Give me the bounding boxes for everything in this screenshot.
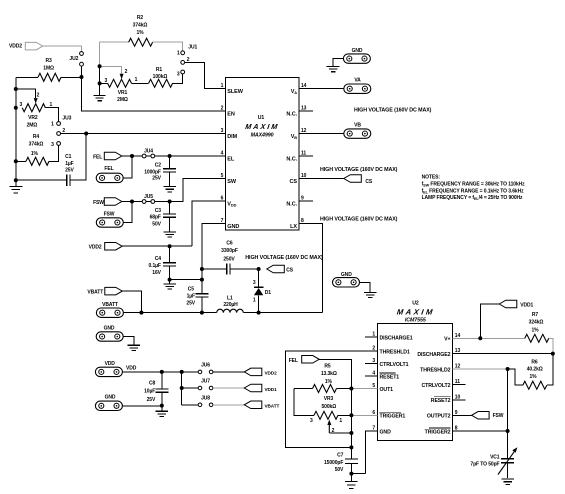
net tag VDD2 (right): [244, 368, 261, 376]
node C8 bottom junction: [160, 404, 164, 408]
wire EL row: [122, 155, 226, 157]
node C4 junction: [168, 244, 172, 248]
svg-text:VDD: VDD: [227, 202, 236, 208]
svg-text:10µF: 10µF: [144, 389, 155, 395]
U2 pin 11 stub: [453, 383, 466, 385]
svg-text:25V: 25V: [186, 300, 195, 306]
jumper JU7: [198, 386, 202, 390]
U2 pin 4 stub: [365, 375, 377, 377]
svg-text:OUT1: OUT1: [380, 387, 394, 393]
wire VDD row: [122, 371, 198, 373]
svg-text:CS: CS: [365, 179, 373, 185]
wire CS pin to tag: [299, 178, 344, 180]
U1 pin 11 N.C. stub: [299, 155, 313, 157]
svg-text:HIGH VOLTAGE (160V DC MAX): HIGH VOLTAGE (160V DC MAX): [354, 107, 432, 113]
ground (mid left): [128, 345, 141, 350]
svg-text:3: 3: [19, 102, 22, 108]
wire battery rail (bottom): [123, 312, 323, 314]
svg-text:TRIGGER2: TRIGGER2: [425, 429, 451, 435]
U2 pin 10 stub: [453, 399, 466, 401]
svg-text:R4: R4: [33, 134, 40, 140]
ground (VC1): [501, 479, 514, 485]
svg-text:3: 3: [253, 280, 256, 286]
svg-text:1%: 1%: [529, 374, 537, 380]
svg-text:VDD2: VDD2: [265, 371, 278, 376]
svg-text:1: 1: [339, 418, 342, 424]
svg-text:JU6: JU6: [201, 363, 210, 369]
ground (C7): [350, 474, 352, 481]
svg-text:R6: R6: [531, 359, 538, 365]
ground (C3): [163, 232, 176, 237]
net tag CS (U1 pin 10): [344, 175, 362, 183]
wire VA to connector: [299, 88, 344, 90]
svg-text:0.1µF: 0.1µF: [149, 263, 161, 269]
svg-text:13.3kΩ: 13.3kΩ: [321, 371, 337, 377]
svg-text:MAXIM: MAXIM: [245, 122, 280, 131]
svg-text:VC1: VC1: [490, 454, 500, 460]
svg-text:VB: VB: [354, 122, 361, 128]
svg-text:THRESHLD1: THRESHLD1: [380, 349, 410, 355]
svg-text:THRESHLD2: THRESHLD2: [420, 367, 450, 373]
svg-text:3: 3: [51, 142, 54, 148]
svg-text:N.C.: N.C.: [286, 157, 297, 163]
svg-text:R7: R7: [532, 312, 539, 318]
svg-text:L1: L1: [227, 295, 233, 301]
svg-text:LX: LX: [290, 224, 297, 230]
svg-text:RESET1: RESET1: [380, 374, 400, 380]
jumper JU2: [80, 52, 84, 56]
svg-text:N.C.: N.C.: [286, 202, 297, 208]
svg-text:3: 3: [310, 418, 313, 424]
wire U2 pin 12 to node: [453, 368, 508, 370]
svg-text:2: 2: [221, 106, 224, 112]
net tag VBATT (right): [244, 401, 261, 409]
svg-text:1%: 1%: [531, 327, 539, 333]
ground (top right): [327, 66, 340, 71]
node FSW junction: [130, 200, 134, 204]
wire VR2 pin1 to JU3: [45, 108, 58, 122]
wire JU7 to VDD1 tag: [213, 387, 244, 389]
svg-text:GND: GND: [380, 429, 392, 435]
svg-text:VBATT: VBATT: [265, 404, 280, 409]
svg-text:R5: R5: [324, 364, 331, 370]
svg-text:VB: VB: [291, 134, 298, 140]
ground (VR1): [99, 83, 101, 95]
svg-text:JU2: JU2: [69, 56, 78, 62]
svg-text:HIGH VOLTAGE (160V DC MAX): HIGH VOLTAGE (160V DC MAX): [320, 167, 398, 173]
wire C7 bottom to GND pin: [351, 473, 365, 475]
svg-text:374kΩ: 374kΩ: [29, 141, 44, 147]
wire DIM net JU3 to U1 pin 3: [61, 133, 226, 135]
svg-text:GND: GND: [104, 326, 115, 332]
svg-text:GND: GND: [105, 394, 116, 400]
svg-text:U2: U2: [412, 300, 419, 306]
svg-text:SW: SW: [227, 179, 237, 185]
svg-text:100kΩ: 100kΩ: [153, 74, 168, 80]
net tag VDD1 (right): [244, 384, 261, 392]
svg-text:1µF: 1µF: [65, 161, 73, 167]
svg-text:7pF TO 50pF: 7pF TO 50pF: [470, 461, 499, 467]
svg-text:C7: C7: [337, 452, 344, 458]
wire LX to transformer node: [299, 224, 323, 313]
svg-text:DISCHARGE2: DISCHARGE2: [417, 352, 450, 358]
svg-text:CTRLVOLT2: CTRLVOLT2: [422, 383, 451, 389]
svg-text:1%: 1%: [31, 151, 39, 157]
ground (center): [364, 292, 377, 297]
wire JU3 pin3 to R4: [49, 145, 59, 161]
svg-text:25V: 25V: [65, 167, 74, 173]
svg-text:C3: C3: [155, 208, 162, 214]
svg-text:16V: 16V: [152, 270, 161, 276]
wire VDD pin jog: [192, 201, 225, 246]
svg-text:VDD1: VDD1: [520, 302, 533, 308]
svg-text:JU8: JU8: [201, 396, 210, 402]
svg-text:FSW: FSW: [104, 212, 115, 218]
wire VC1 rail: [507, 369, 509, 459]
svg-text:OUTPUT2: OUTPUT2: [427, 414, 451, 420]
node rail/C4 junction: [200, 278, 204, 282]
node C5 bottom junction: [200, 311, 204, 315]
svg-text:C2: C2: [155, 162, 162, 168]
wire SLEW net JU1 pin2 to U1 pin 1: [185, 62, 226, 88]
svg-text:DIM: DIM: [227, 134, 237, 140]
wire left rail: [15, 77, 17, 180]
svg-text:220µH: 220µH: [223, 302, 238, 308]
svg-text:U1: U1: [258, 115, 265, 121]
wire VR1 loop left: [99, 66, 101, 83]
node TRIGGER2 junction: [506, 429, 510, 433]
jumper JU1: [181, 51, 185, 55]
svg-text:R3: R3: [45, 58, 52, 64]
svg-text:V+: V+: [444, 337, 450, 343]
svg-text:EN: EN: [227, 112, 235, 118]
wire R7 to DISCHARGE2 node: [549, 338, 553, 353]
node C7 bottom junction: [349, 472, 353, 476]
node OUT1 junction: [349, 387, 353, 391]
node DIM/C1 junction: [84, 132, 88, 136]
svg-text:40.2kΩ: 40.2kΩ: [527, 367, 543, 373]
svg-text:3: 3: [221, 128, 224, 134]
wire JU8 to VBATT tag: [213, 404, 244, 406]
node R3/JU2/EN junction: [80, 75, 84, 79]
svg-text:LAMP FREQUENCY = fEL/4 = 25Hz: LAMP FREQUENCY = fEL/4 = 25Hz TO 900Hz: [422, 195, 523, 201]
svg-text:JU3: JU3: [62, 116, 71, 122]
svg-text:C1: C1: [65, 154, 72, 160]
wire VR3 pin1 to TRIGGER1: [338, 414, 351, 416]
svg-text:MAXIM: MAXIM: [396, 308, 435, 317]
wire JU6 to VDD2 tag: [213, 371, 244, 373]
svg-text:C8: C8: [149, 380, 156, 386]
svg-text:FEL: FEL: [289, 358, 298, 364]
svg-text:1%: 1%: [136, 30, 144, 36]
svg-text:1: 1: [177, 51, 180, 57]
node THRESHLD2 junction: [506, 367, 510, 371]
svg-text:SLEW: SLEW: [227, 89, 243, 95]
svg-text:CS: CS: [290, 179, 298, 185]
wire GND center to ground: [360, 282, 371, 292]
svg-text:NOTES:: NOTES:: [422, 175, 441, 181]
svg-text:VDD1: VDD1: [265, 387, 278, 392]
svg-text:1: 1: [135, 77, 138, 83]
ground (C2): [163, 187, 176, 192]
net tag VDD1 (top): [499, 300, 517, 308]
svg-text:JU7: JU7: [201, 379, 210, 385]
wire U2 pin 8 to VC1 rail: [453, 430, 508, 432]
node VBATT drop junction: [139, 311, 143, 315]
wire VB to connector: [299, 133, 344, 135]
svg-text:MAX4990: MAX4990: [251, 133, 274, 139]
jumper JU3: [57, 122, 61, 126]
svg-text:JU5: JU5: [144, 194, 153, 200]
svg-text:EL: EL: [227, 157, 235, 163]
svg-text:HIGH VOLTAGE (160V DC MAX): HIGH VOLTAGE (160V DC MAX): [320, 216, 398, 222]
svg-text:fEL FREQUENCY RANGE = 0.1kHz T: fEL FREQUENCY RANGE = 0.1kHz TO 3.6kHz: [422, 188, 524, 194]
svg-text:HIGH VOLTAGE (160V DC MAX): HIGH VOLTAGE (160V DC MAX): [245, 255, 323, 261]
svg-text:C6: C6: [226, 241, 233, 247]
jumper JU5: [142, 200, 146, 204]
svg-text:1: 1: [51, 122, 54, 128]
node V+/VDD1 junction: [478, 336, 482, 340]
jumper JU6: [198, 370, 202, 374]
node R7/R6 junction: [551, 352, 555, 356]
svg-text:2: 2: [125, 69, 128, 75]
svg-text:N.C.: N.C.: [286, 112, 297, 118]
node C2 junction: [168, 154, 172, 158]
wire JU2 to node: [81, 66, 83, 76]
svg-text:JU4: JU4: [144, 148, 153, 154]
U1 pin 13 N.C. stub: [299, 110, 313, 112]
wire C7 rail: [350, 389, 352, 460]
wire VDD1 drop: [480, 304, 499, 338]
svg-text:ICM7555: ICM7555: [405, 318, 427, 324]
wire FEL to OUT1 node: [319, 359, 351, 388]
svg-text:VR2: VR2: [28, 115, 38, 121]
wire FEL connector to EL net: [123, 156, 132, 178]
svg-text:50V: 50V: [335, 467, 344, 473]
svg-text:15000pF: 15000pF: [324, 460, 343, 466]
wire C4 bottom to GND rail: [170, 279, 202, 281]
net tag CS (at C6): [267, 265, 285, 273]
svg-text:VA: VA: [291, 89, 298, 95]
node C3 junction: [168, 200, 172, 204]
svg-text:TRIGGER1: TRIGGER1: [380, 414, 406, 420]
svg-text:2: 2: [37, 93, 40, 99]
node wiper junction: [349, 431, 353, 435]
wire GND oval to C8: [122, 405, 161, 407]
svg-text:VBATT: VBATT: [102, 302, 118, 308]
wire R5 loop left: [294, 389, 314, 416]
wire R2 left rail: [99, 42, 101, 66]
ground (bottom of left rail): [15, 180, 17, 186]
wire U2 pin 6 TRIGGER1: [351, 414, 377, 416]
svg-text:GND: GND: [352, 48, 363, 54]
svg-text:FSW: FSW: [93, 200, 104, 206]
svg-text:D1: D1: [265, 290, 272, 296]
wire JU1 pin3 to R1: [173, 74, 183, 83]
node C6 left junction: [200, 267, 204, 271]
svg-text:1MΩ: 1MΩ: [43, 66, 54, 72]
svg-text:324kΩ: 324kΩ: [529, 320, 544, 326]
svg-text:VDD2: VDD2: [89, 244, 102, 250]
wire U1 GND pin down rail: [202, 224, 225, 294]
svg-text:R2: R2: [137, 15, 144, 21]
net tag FSW (U2): [472, 412, 490, 420]
svg-text:fSW FREQUENCY RANGE = 30kHz TO: fSW FREQUENCY RANGE = 30kHz TO 110kHz: [422, 182, 526, 188]
svg-text:3: 3: [177, 72, 180, 78]
svg-text:FSW: FSW: [493, 413, 504, 419]
U2 pin 3 stub: [365, 362, 377, 364]
node TRIGGER1 junction: [349, 413, 353, 417]
svg-text:250V: 250V: [223, 256, 235, 262]
ground (C8): [161, 406, 163, 411]
ground (C4): [169, 280, 171, 284]
node JU7 junction: [180, 386, 184, 390]
jumper JU4: [142, 154, 146, 158]
svg-text:R1: R1: [156, 67, 163, 73]
wire R2 right to JU1 pin 1: [153, 42, 183, 51]
node outer loop junction: [349, 445, 353, 449]
node JU7/JU8 branch junction: [180, 370, 184, 374]
svg-text:68pF: 68pF: [150, 215, 161, 221]
wire GND oval to ground (mid left): [123, 337, 134, 345]
svg-text:DISCHARGE1: DISCHARGE1: [380, 335, 413, 341]
node C6/D1/CS junction: [257, 267, 261, 271]
svg-text:1µF: 1µF: [187, 294, 195, 300]
wire U2 pin 13 to R6/R7 node: [453, 353, 553, 355]
svg-text:50V: 50V: [152, 221, 161, 227]
svg-text:VDD: VDD: [126, 366, 137, 372]
svg-text:1: 1: [221, 83, 224, 89]
svg-text:VA: VA: [354, 77, 361, 83]
svg-text:25V: 25V: [152, 176, 161, 182]
jumper JU8: [198, 403, 202, 407]
wire GND oval to ground: [333, 59, 343, 66]
node FEL junction: [130, 154, 134, 158]
svg-text:RESET2: RESET2: [431, 398, 451, 404]
svg-text:VDD2: VDD2: [9, 44, 22, 50]
svg-text:FEL: FEL: [104, 166, 113, 172]
wire VDD2 to JU1/JU2 net: [43, 46, 82, 51]
wire R6 left leg: [508, 369, 523, 385]
svg-text:CTRLVOLT1: CTRLVOLT1: [380, 362, 409, 368]
svg-text:JU1: JU1: [188, 44, 197, 50]
wire U2 pin 9 to FSW tag: [453, 414, 472, 416]
node C8 top junction: [160, 370, 164, 374]
svg-text:VDD: VDD: [105, 361, 116, 367]
wire VBATT tag to rail: [122, 291, 141, 313]
svg-text:2MΩ: 2MΩ: [27, 122, 38, 128]
svg-text:25V: 25V: [147, 397, 156, 403]
svg-text:2MΩ: 2MΩ: [117, 97, 128, 103]
wire THRESHLD1 outer loop: [286, 351, 378, 447]
svg-text:VR1: VR1: [118, 90, 128, 96]
wire V+ net (U2 pin 14 to R7): [453, 337, 525, 339]
node C4 bottom junction: [168, 278, 172, 282]
wire VR3 wiper to rail: [329, 432, 351, 434]
U2 pin 1 stub: [365, 336, 377, 338]
wire EN net to U1 pin 2: [82, 77, 226, 111]
svg-text:FEL: FEL: [93, 155, 102, 161]
svg-text:1000pF: 1000pF: [144, 169, 161, 175]
svg-text:500kΩ: 500kΩ: [321, 404, 336, 410]
U1 pin 9 N.C. stub: [299, 200, 313, 202]
wire JU8 row left: [182, 404, 199, 406]
op-amp U1 MAX4990 IC body: [225, 78, 299, 231]
svg-text:374kΩ: 374kΩ: [133, 23, 148, 29]
wire VDD2 row: [122, 245, 192, 247]
svg-text:GND: GND: [227, 224, 239, 230]
wire FSW connector to net: [123, 202, 132, 223]
wire R6 right leg: [547, 354, 553, 386]
wire FSW row: [122, 201, 170, 203]
wire branch rail down: [181, 372, 183, 405]
svg-text:C4: C4: [155, 256, 162, 262]
wire JU7 row left: [182, 387, 199, 389]
node D1 bottom junction: [257, 311, 261, 315]
svg-text:VBATT: VBATT: [87, 290, 103, 296]
svg-text:CS: CS: [286, 267, 294, 273]
svg-text:3300pF: 3300pF: [221, 248, 238, 254]
wire U2 pin 7 GND down: [366, 431, 378, 474]
svg-text:1: 1: [253, 298, 256, 304]
svg-text:VR3: VR3: [324, 396, 334, 402]
svg-text:1%: 1%: [325, 379, 333, 385]
wire SW jog to FSW row: [170, 179, 226, 202]
wire U2 pin 5 OUT1: [351, 388, 377, 390]
svg-text:C5: C5: [188, 287, 195, 293]
